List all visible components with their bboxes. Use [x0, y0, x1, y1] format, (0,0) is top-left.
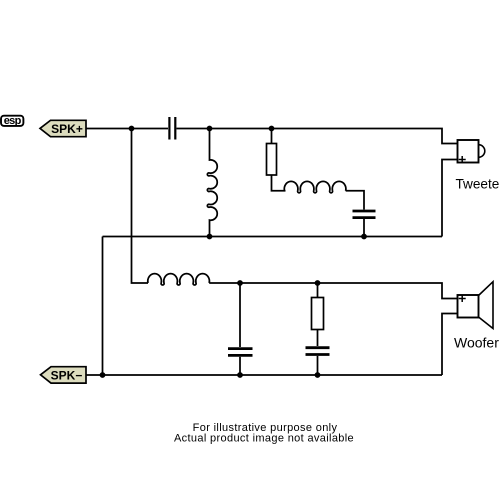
- svg-text:Woofer: Woofer: [454, 335, 499, 351]
- node J junction (C4 to bus): [315, 372, 321, 378]
- terminal tag SPK-: [41, 367, 87, 383]
- wire SPK- bus: [86, 374, 442, 376]
- wire SPK+ to node A: [86, 128, 132, 130]
- wire C1 to node B: [177, 128, 210, 130]
- node C junction: [269, 126, 275, 132]
- wire R1 to inductor L2: [272, 175, 286, 191]
- terminal tag SPK+: [40, 120, 86, 136]
- wire node G down to resistor R2: [317, 283, 319, 298]
- wire node A to capacitor C1: [132, 128, 169, 130]
- wire C3 to SPK- bus: [239, 357, 241, 375]
- node D junction (L1 to bus): [207, 234, 213, 240]
- woofer plus polarity: [459, 295, 466, 302]
- svg-text:esp: esp: [4, 115, 22, 127]
- svg-text:Actual product image not avail: Actual product image not available: [174, 433, 354, 445]
- wire node B to node C: [210, 128, 272, 130]
- wire node C to tweeter corner: [272, 129, 458, 144]
- node F junction: [237, 280, 243, 286]
- node G junction: [315, 280, 321, 286]
- woofer SP2 body: [458, 295, 479, 318]
- wire node F to node G: [240, 282, 318, 284]
- wire node A down to woofer inductor: [132, 129, 149, 284]
- capacitor C1 (series, tweeter high-pass): [169, 117, 175, 140]
- wire L2 to capacitor C2: [346, 191, 364, 210]
- inductor L3 (woofer series, horizontal): [148, 274, 210, 285]
- inductor L2 (tweeter damped branch, horizontal): [284, 181, 346, 192]
- wire L3 to node F: [209, 282, 240, 284]
- capacitor C2 (tweeter zobel): [353, 211, 376, 218]
- node E junction (C2 to bus): [361, 234, 367, 240]
- wire C4 to SPK- bus: [317, 356, 319, 375]
- ESP logo: [1, 115, 23, 127]
- capacitor C3 (woofer low-pass shunt): [228, 349, 253, 356]
- tweeter plus polarity: [459, 156, 466, 163]
- wire R2 to capacitor C4: [317, 330, 319, 347]
- wire left vertical (bus to SPK- node): [102, 237, 104, 376]
- wire node G to woofer corner: [318, 283, 458, 299]
- tweeter dome: [479, 145, 485, 158]
- node B junction: [207, 126, 213, 132]
- svg-text:SPK−: SPK−: [51, 369, 83, 383]
- resistor R2: [312, 298, 324, 330]
- wire mid return bus: [103, 236, 443, 238]
- inductor L1 (shunt, vertical): [207, 129, 217, 237]
- wire C2 to bus: [363, 219, 365, 237]
- wire woofer return: [442, 314, 458, 376]
- node I junction (C3 to bus): [237, 372, 243, 378]
- tweeter SP1 body: [458, 140, 479, 163]
- node H junction (left vertical to SPK- bus): [100, 372, 106, 378]
- wire node C down to resistor R1: [271, 129, 273, 144]
- wire node F down to capacitor C3: [239, 283, 241, 347]
- svg-text:SPK+: SPK+: [51, 122, 83, 136]
- resistor R1: [267, 144, 277, 176]
- node A junction: [129, 126, 135, 132]
- svg-text:Tweeter: Tweeter: [456, 176, 500, 191]
- wire tweeter return: [442, 160, 458, 237]
- capacitor C4 (woofer zobel): [306, 348, 330, 355]
- woofer cone: [479, 282, 494, 329]
